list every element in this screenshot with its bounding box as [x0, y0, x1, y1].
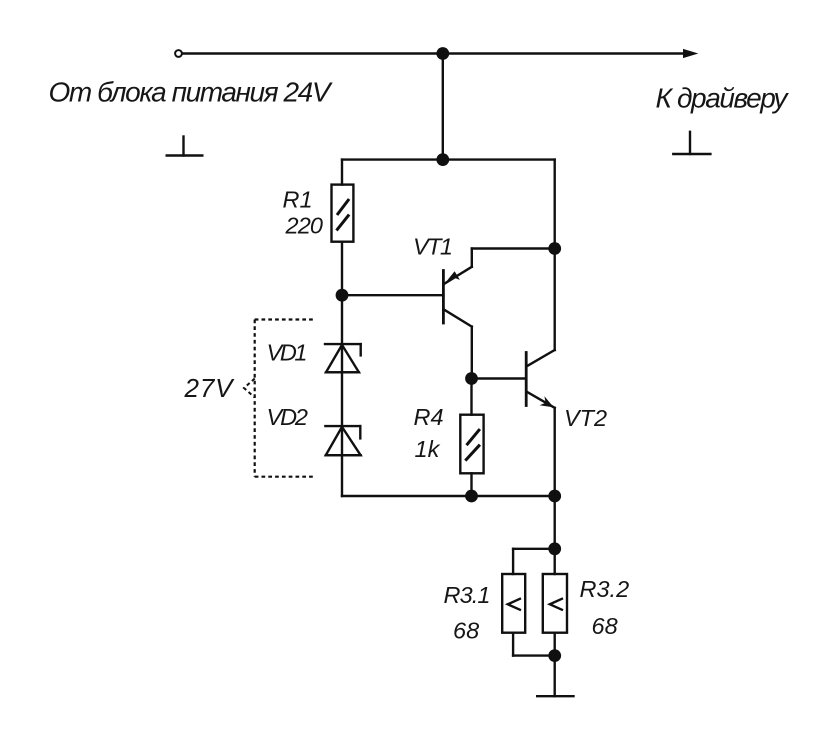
wire second rail horizontal — [342, 158, 555, 160]
bracket 27V dotted — [255, 320, 316, 477]
svg-text:68: 68 — [453, 618, 479, 644]
wire VT2 base — [472, 377, 527, 379]
transistor VT1 — [442, 271, 445, 324]
wire down to R3 pair — [554, 496, 556, 549]
ground right — [689, 132, 691, 154]
zener diode VD2 — [325, 425, 360, 427]
wire zener chain vertical — [341, 295, 343, 496]
bracket pointer notch — [244, 379, 255, 398]
svg-text:220: 220 — [285, 213, 324, 239]
svg-text:К драйверу: К драйверу — [656, 82, 790, 113]
wire VT2 emitter down — [554, 408, 556, 496]
node VT1 emitter on right rail — [548, 242, 561, 255]
node base of VT1 / top of zener chain — [336, 289, 349, 302]
svg-text:R3.2: R3.2 — [580, 576, 630, 602]
wire to ground — [554, 656, 556, 697]
arrow to driver — [683, 49, 698, 58]
node R4 bottom — [465, 490, 478, 503]
svg-text:27V: 27V — [184, 373, 236, 403]
wire right rail upper — [554, 160, 556, 350]
wire R4 top lead — [470, 379, 472, 415]
node bottom rail right — [548, 490, 561, 503]
svg-text:68: 68 — [592, 613, 618, 639]
svg-text:1k: 1k — [415, 436, 441, 462]
wire VT1 emitter up to rail — [471, 249, 473, 267]
wire R3.2 bottom lead — [554, 633, 556, 656]
node junction top rail — [436, 47, 449, 60]
resistor R1 — [332, 185, 354, 242]
resistor R4 — [460, 415, 483, 474]
wire R4 bottom lead — [470, 473, 472, 496]
wire R3.2 top lead — [554, 549, 556, 574]
wire R1 top lead — [341, 160, 343, 185]
wire bottom rail — [342, 495, 555, 497]
svg-text:От блока питания 24V: От блока питания 24V — [49, 77, 333, 108]
svg-text:R3.1: R3.1 — [444, 582, 491, 608]
resistor R3.1 — [502, 574, 525, 633]
node R3 bottom — [548, 649, 561, 662]
terminal circle input from power supply — [175, 50, 182, 57]
svg-text:VD2: VD2 — [267, 404, 309, 430]
node VT1 collector / VT2 base / R4 top — [465, 372, 478, 385]
wire R1 bottom lead — [341, 242, 343, 296]
wire vertical from top rail — [442, 54, 444, 160]
wire R3.1 bottom branch — [512, 633, 514, 656]
wire R3.1 top branch — [513, 548, 555, 550]
wire VT1 base — [342, 294, 443, 296]
svg-text:R1: R1 — [283, 187, 313, 213]
svg-text:VT1: VT1 — [413, 233, 453, 259]
svg-text:VD1: VD1 — [267, 340, 308, 366]
ground bottom — [537, 695, 573, 697]
wire top rail — [182, 52, 684, 54]
node junction second rail — [436, 153, 449, 166]
ground left — [182, 137, 184, 156]
zener diode VD1 — [325, 343, 361, 345]
svg-text:VT2: VT2 — [564, 405, 607, 431]
node R3 top — [548, 542, 561, 555]
wire VT1 collector down — [471, 327, 473, 379]
transistor VT2 — [525, 353, 528, 406]
svg-text:R4: R4 — [414, 404, 444, 430]
resistor R3.2 — [543, 574, 567, 633]
